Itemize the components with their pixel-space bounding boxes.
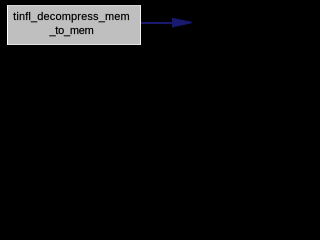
arrowhead (0, 0, 293, 51)
node: tinfl_decompress_mem_to_mem (7, 5, 141, 45)
wire: edge line (141, 22, 174, 24)
